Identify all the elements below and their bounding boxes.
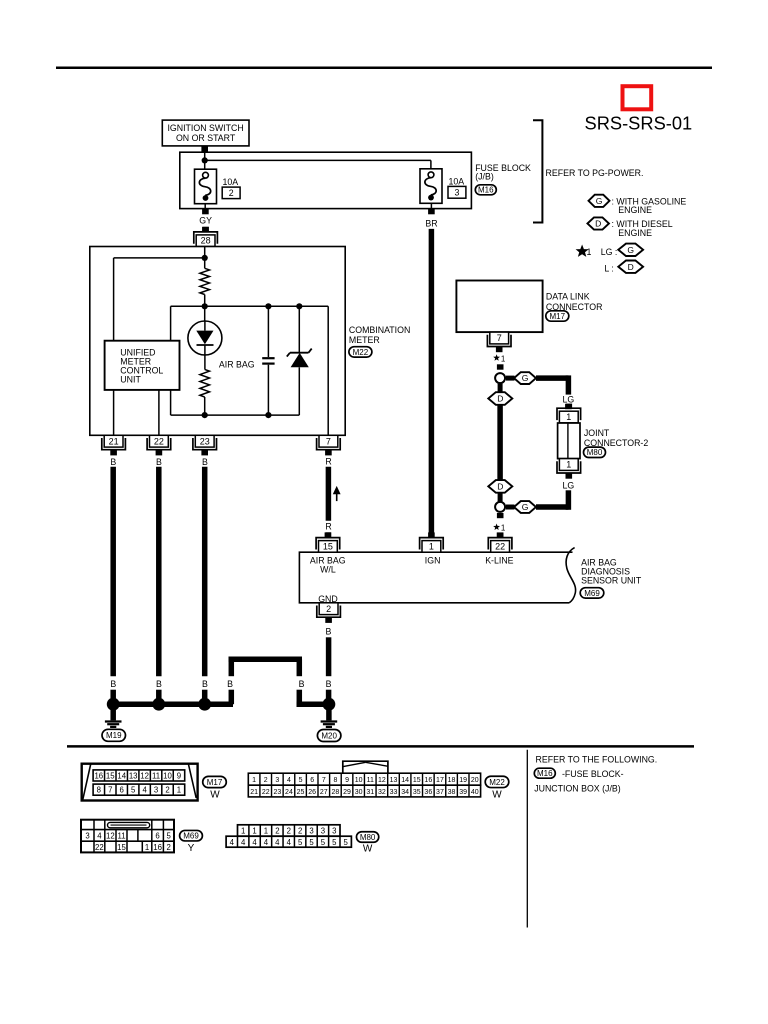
connector 7 meter <box>317 435 341 455</box>
svg-text:LG :: LG : <box>601 247 618 257</box>
svg-text:K-LINE: K-LINE <box>485 555 513 565</box>
fuse block box <box>180 152 472 208</box>
svg-text:21: 21 <box>250 789 258 796</box>
fuse F2 10A <box>195 169 217 204</box>
connector 7 DLC <box>487 332 511 352</box>
svg-text:3: 3 <box>154 786 158 795</box>
svg-text:28: 28 <box>332 789 340 796</box>
wire inner left edge lower <box>170 390 172 415</box>
svg-text:3: 3 <box>332 827 336 836</box>
connector oval M16 <box>475 185 496 195</box>
legend hexagon D diesel <box>587 217 609 229</box>
svg-text:7: 7 <box>326 436 331 446</box>
wire inner left edge upper <box>170 306 172 340</box>
junction dot bottom B <box>265 412 271 418</box>
svg-text:14: 14 <box>401 777 409 784</box>
footer oval M16 <box>534 768 555 778</box>
svg-text:M22: M22 <box>353 348 369 357</box>
wire zener upper <box>298 306 300 352</box>
svg-text:10: 10 <box>355 777 363 784</box>
wire inner bottom bus <box>171 414 300 416</box>
svg-text:REFER TO THE FOLLOWING.: REFER TO THE FOLLOWING. <box>536 755 658 765</box>
connector oval M80 label <box>584 447 606 457</box>
legend star1 LG <box>576 245 618 258</box>
svg-text:W: W <box>492 789 502 800</box>
svg-text:-FUSE BLOCK-: -FUSE BLOCK- <box>562 769 624 779</box>
wire UMCU to connector 21 <box>113 390 115 435</box>
svg-text:2: 2 <box>275 827 279 836</box>
arrow up on R wire <box>333 486 341 501</box>
svg-text:D: D <box>497 482 503 492</box>
label B ground 3 <box>202 679 208 689</box>
label IGN <box>425 555 441 565</box>
svg-text:9: 9 <box>177 772 181 781</box>
svg-text:G: G <box>522 373 529 383</box>
svg-text:33: 33 <box>390 789 398 796</box>
svg-text:10A: 10A <box>223 177 239 187</box>
pin box 3 <box>448 186 466 198</box>
connector pinout M69 <box>81 820 174 853</box>
junction dot ground 3 <box>198 698 211 711</box>
svg-text:16: 16 <box>153 843 162 852</box>
label B ground 5 <box>299 679 305 689</box>
svg-text:D: D <box>595 219 601 229</box>
wire branch to UMCU <box>114 258 205 341</box>
svg-text:3: 3 <box>321 827 325 836</box>
svg-text:2: 2 <box>298 827 302 836</box>
ground M20 <box>321 698 338 727</box>
junction dot bus B <box>265 303 271 309</box>
svg-text:Y: Y <box>188 843 195 854</box>
svg-text:5: 5 <box>332 838 337 847</box>
svg-text:M19: M19 <box>106 731 122 740</box>
ground M19 <box>105 698 122 727</box>
svg-text:28: 28 <box>201 236 211 246</box>
svg-text:4: 4 <box>264 838 269 847</box>
wire GY fuse2 to meter <box>202 204 209 232</box>
svg-text:17: 17 <box>436 777 444 784</box>
svg-text:ENGINE: ENGINE <box>618 205 652 215</box>
legend hexagon G LG <box>618 244 643 256</box>
svg-text:M16: M16 <box>537 769 553 778</box>
svg-text:1: 1 <box>587 247 592 257</box>
svg-text:7: 7 <box>322 777 326 784</box>
footer oval M69 <box>180 830 203 841</box>
junction dot bus A <box>202 303 208 309</box>
svg-text:7: 7 <box>497 333 502 343</box>
svg-text:G: G <box>522 502 529 512</box>
junction dot bus C <box>296 303 302 309</box>
wire inner top bus <box>171 305 329 307</box>
svg-text:20: 20 <box>471 777 479 784</box>
svg-text:ON OR START: ON OR START <box>176 133 236 143</box>
connector 21 meter <box>102 435 126 455</box>
data link connector box <box>456 281 542 333</box>
connector 22 sensor <box>488 532 512 552</box>
hexagon G top <box>506 372 536 384</box>
junction dot bottom A <box>202 412 208 418</box>
svg-text:B: B <box>326 679 332 689</box>
svg-text:ENGINE: ENGINE <box>618 228 652 238</box>
svg-text:L :: L : <box>604 263 613 273</box>
junction dot ground 2 <box>152 698 165 711</box>
svg-text:D: D <box>628 262 634 272</box>
connector 22 meter <box>147 435 171 455</box>
svg-text:8: 8 <box>333 777 337 784</box>
svg-text:15: 15 <box>117 843 126 852</box>
svg-text:25: 25 <box>297 789 305 796</box>
label B ground 1 <box>110 679 116 689</box>
wire R1 to bus <box>204 295 206 307</box>
connector 2 sensor GND <box>317 603 341 623</box>
svg-text:2: 2 <box>326 604 331 614</box>
svg-text:31: 31 <box>366 789 374 796</box>
svg-text:1: 1 <box>252 777 256 784</box>
connector oval M22 label <box>349 347 372 357</box>
legend hexagon G gasoline <box>589 195 610 207</box>
svg-text:32: 32 <box>378 789 386 796</box>
wire LED branch upper <box>204 306 206 321</box>
svg-text:6: 6 <box>310 777 314 784</box>
connector 28 meter <box>194 227 218 247</box>
svg-text:9: 9 <box>345 777 349 784</box>
wire G to joint connector <box>536 375 568 394</box>
connector 15 sensor <box>316 532 340 552</box>
wire B GND down <box>326 637 332 704</box>
wire R to sensor <box>326 467 332 537</box>
svg-text:IGNITION SWITCH: IGNITION SWITCH <box>167 123 243 133</box>
wire UMCU to connector 22 <box>158 390 160 435</box>
footer oval M80 <box>356 832 378 843</box>
svg-text:M69: M69 <box>183 832 199 841</box>
svg-text:B: B <box>156 457 162 467</box>
svg-text:26: 26 <box>308 789 316 796</box>
label AIR BAG W/L <box>310 555 346 574</box>
capacitor C1 <box>262 358 274 363</box>
label W M17 <box>210 789 220 800</box>
svg-text:2: 2 <box>264 777 268 784</box>
wire ground bus right <box>297 701 329 707</box>
wire B from 22 <box>156 467 162 704</box>
label WITH GASOLINE ENGINE <box>612 196 687 215</box>
svg-text:G: G <box>627 245 634 255</box>
svg-text:LG: LG <box>563 481 575 491</box>
svg-text:13: 13 <box>390 777 398 784</box>
svg-text:36: 36 <box>424 789 432 796</box>
svg-text:1: 1 <box>264 827 268 836</box>
svg-text:B: B <box>202 679 208 689</box>
svg-text:W: W <box>210 789 220 800</box>
svg-text:27: 27 <box>320 789 328 796</box>
ground oval M19 <box>102 729 126 741</box>
connector oval M17 label <box>546 311 569 321</box>
label W M80 <box>363 843 373 854</box>
footer divider vertical <box>526 750 528 928</box>
wire BR fuse3 to sensor <box>428 203 435 535</box>
svg-text:M80: M80 <box>360 833 376 842</box>
svg-text:5: 5 <box>309 838 314 847</box>
svg-text:8: 8 <box>97 786 101 795</box>
svg-text:12: 12 <box>378 777 386 784</box>
svg-text:M20: M20 <box>321 731 337 740</box>
svg-text:5: 5 <box>298 838 303 847</box>
svg-text:B: B <box>299 679 305 689</box>
svg-text:BR: BR <box>425 218 437 228</box>
svg-text:4: 4 <box>252 838 257 847</box>
svg-text:2: 2 <box>165 786 169 795</box>
label B wire22 <box>156 457 162 467</box>
svg-text:16: 16 <box>94 772 103 781</box>
wire LED to R2 <box>204 345 206 369</box>
svg-text:REFER TO PG-POWER.: REFER TO PG-POWER. <box>546 168 644 178</box>
label REFER TO PG-POWER. <box>546 168 644 178</box>
joint circle bottom <box>495 502 505 512</box>
wire meter main vertical <box>204 247 206 269</box>
svg-text:16: 16 <box>424 777 432 784</box>
label AIR BAG <box>219 360 255 370</box>
svg-text:21: 21 <box>109 436 119 446</box>
label B wire21 <box>110 457 116 467</box>
svg-text:M17: M17 <box>207 778 223 787</box>
svg-text:1: 1 <box>145 843 149 852</box>
fuse block bracket <box>533 120 542 222</box>
svg-text:JUNCTION BOX (J/B): JUNCTION BOX (J/B) <box>534 784 621 794</box>
ignition switch box <box>162 120 249 146</box>
svg-text:5: 5 <box>344 838 349 847</box>
svg-text:4: 4 <box>241 838 246 847</box>
svg-text:13: 13 <box>129 772 138 781</box>
label REFER TO THE FOLLOWING. <box>536 755 658 765</box>
bottom border line <box>67 745 694 748</box>
joint connector body <box>558 423 580 459</box>
svg-text:4: 4 <box>142 786 147 795</box>
label LG bottom <box>563 481 575 491</box>
label FUSE BLOCK JUNCTION BOX <box>534 769 623 794</box>
wire ground bus left <box>113 701 233 707</box>
label R wire7 <box>325 456 331 466</box>
wire B from 23 <box>202 467 208 704</box>
svg-text:5: 5 <box>299 777 303 784</box>
title SRS-SRS-01 <box>585 112 693 133</box>
svg-text:12: 12 <box>106 832 115 841</box>
svg-text:1: 1 <box>429 541 434 551</box>
wire ignition to fuse block <box>201 146 208 154</box>
wire LG bottom to G <box>536 490 568 510</box>
svg-text:1: 1 <box>566 412 571 422</box>
svg-text:M22: M22 <box>489 778 505 787</box>
legend L label <box>604 263 613 273</box>
svg-text:B: B <box>325 626 331 636</box>
joint circle top <box>495 373 505 383</box>
fuse F3 10A <box>420 169 442 204</box>
svg-text:M80: M80 <box>587 448 603 457</box>
LED air bag lamp <box>188 321 222 355</box>
svg-text:22: 22 <box>95 843 104 852</box>
label B ground 6 <box>326 679 332 689</box>
svg-text:1: 1 <box>501 354 506 363</box>
label LG top <box>563 395 575 405</box>
connector 23 meter <box>193 435 217 455</box>
svg-text:M16: M16 <box>478 186 494 195</box>
svg-text:22: 22 <box>495 541 505 551</box>
svg-text:7: 7 <box>108 786 112 795</box>
svg-text:2: 2 <box>229 188 234 198</box>
svg-text:29: 29 <box>343 789 351 796</box>
svg-text:6: 6 <box>120 786 124 795</box>
svg-text:2: 2 <box>287 827 291 836</box>
diamond D lower <box>488 480 512 493</box>
svg-text:14: 14 <box>117 772 126 781</box>
label JOINT CONNECTOR-2 <box>584 428 648 448</box>
svg-text:10: 10 <box>163 772 172 781</box>
svg-text:19: 19 <box>459 777 467 784</box>
svg-text:24: 24 <box>285 789 293 796</box>
svg-text:METER: METER <box>349 335 380 345</box>
wire fuse block bus <box>205 152 431 169</box>
svg-text:5: 5 <box>167 832 172 841</box>
footer oval M17 <box>203 776 227 787</box>
svg-text:W: W <box>363 843 373 854</box>
junction dot bus <box>202 157 208 163</box>
svg-text:R: R <box>325 522 331 532</box>
svg-text:1: 1 <box>566 460 571 470</box>
svg-text:3: 3 <box>275 777 279 784</box>
svg-text:23: 23 <box>200 436 210 446</box>
svg-text:M17: M17 <box>550 312 566 321</box>
wire capacitor lower <box>267 365 269 415</box>
footer oval M22 <box>485 776 509 787</box>
svg-text:23: 23 <box>273 789 281 796</box>
label WITH DIESEL ENGINE <box>612 219 673 238</box>
svg-text:4: 4 <box>287 777 291 784</box>
label AIR BAG DIAGNOSIS SENSOR UNIT <box>581 558 642 586</box>
svg-text:1: 1 <box>241 827 245 836</box>
svg-text:18: 18 <box>448 777 456 784</box>
svg-text:3: 3 <box>455 188 460 198</box>
svg-text:(J/B): (J/B) <box>475 172 494 182</box>
svg-text:2: 2 <box>167 843 171 852</box>
label B ground 4 <box>227 679 233 689</box>
svg-text:JOINT: JOINT <box>584 428 610 438</box>
connector pinout M17 <box>82 764 198 801</box>
svg-text:38: 38 <box>448 789 456 796</box>
svg-text:R: R <box>325 456 331 466</box>
svg-text:15: 15 <box>106 772 115 781</box>
svg-text:B: B <box>110 457 116 467</box>
label 10A fuse 2 <box>223 177 239 187</box>
connector pinout M80 <box>226 825 351 847</box>
svg-text:M69: M69 <box>584 589 600 598</box>
svg-text:AIR BAG: AIR BAG <box>219 360 255 370</box>
svg-text:15: 15 <box>323 541 333 551</box>
diamond D upper <box>488 392 512 405</box>
svg-text:D: D <box>497 394 503 404</box>
air bag diagnosis sensor unit box <box>299 548 575 603</box>
connector pinout M22 <box>248 761 480 797</box>
label DATA LINK CONNECTOR <box>546 291 603 312</box>
svg-text:6: 6 <box>155 832 159 841</box>
svg-text:1: 1 <box>501 524 506 533</box>
svg-text:B: B <box>156 679 162 689</box>
svg-text:12: 12 <box>140 772 149 781</box>
svg-text:1: 1 <box>252 827 256 836</box>
combination meter box <box>90 247 345 436</box>
legend hexagon D L <box>618 261 643 273</box>
svg-text:3: 3 <box>309 827 313 836</box>
label star1 bottom <box>493 524 506 533</box>
red title box <box>623 86 652 109</box>
svg-text:B: B <box>227 679 233 689</box>
svg-text:22: 22 <box>262 789 270 796</box>
label W M22 <box>492 789 502 800</box>
svg-text:GY: GY <box>199 215 212 225</box>
label K-LINE <box>485 555 513 565</box>
wire stub to circle top <box>497 364 504 369</box>
svg-text:11: 11 <box>367 777 374 784</box>
svg-text:5: 5 <box>321 838 326 847</box>
svg-text:SENSOR UNIT: SENSOR UNIT <box>581 576 642 586</box>
label COMBINATION METER <box>349 325 410 345</box>
svg-text:SRS-SRS-01: SRS-SRS-01 <box>585 112 693 133</box>
svg-text:40: 40 <box>471 789 479 796</box>
svg-text:4: 4 <box>97 832 102 841</box>
label Y M69 <box>188 843 195 854</box>
wire R2 to bottom bus <box>204 397 206 415</box>
svg-text:11: 11 <box>152 772 160 781</box>
svg-text:COMBINATION: COMBINATION <box>349 325 410 335</box>
svg-text:B: B <box>110 679 116 689</box>
svg-text:11: 11 <box>117 832 125 841</box>
hexagon G bottom <box>506 501 536 513</box>
connector 1 joint bottom <box>557 459 581 479</box>
svg-text:B: B <box>202 457 208 467</box>
svg-text:37: 37 <box>436 789 444 796</box>
wire stub circle to star bottom <box>497 513 504 518</box>
svg-text:34: 34 <box>401 789 409 796</box>
zener diode ZD1 <box>287 349 312 368</box>
svg-text:30: 30 <box>355 789 363 796</box>
pin box 2 <box>222 187 240 199</box>
top border line <box>56 67 712 70</box>
resistor R2 <box>200 369 210 397</box>
connector oval M69 label <box>580 588 604 598</box>
resistor R1 <box>200 268 210 294</box>
label R above 15 <box>325 522 331 532</box>
label B ground 2 <box>156 679 162 689</box>
label B GND wire <box>325 626 331 636</box>
wire zener lower <box>298 367 300 415</box>
svg-text:22: 22 <box>154 436 164 446</box>
svg-text:5: 5 <box>131 786 136 795</box>
svg-text:35: 35 <box>413 789 421 796</box>
connector 1 sensor <box>420 532 444 552</box>
svg-text:4: 4 <box>230 838 235 847</box>
wire ground bridge <box>229 657 303 705</box>
svg-text:IGN: IGN <box>425 555 441 565</box>
svg-text:15: 15 <box>413 777 421 784</box>
label BR <box>425 218 437 228</box>
label GY <box>199 215 212 225</box>
ground oval M20 <box>317 730 341 742</box>
svg-text:W/L: W/L <box>320 564 336 574</box>
label FUSE BLOCK (J/B) <box>475 163 531 182</box>
junction node meter top <box>202 255 208 261</box>
svg-text:39: 39 <box>459 789 467 796</box>
wire capacitor upper <box>267 306 269 357</box>
svg-text:G: G <box>596 196 603 206</box>
label B wire23 <box>202 457 208 467</box>
label GND <box>318 594 338 604</box>
